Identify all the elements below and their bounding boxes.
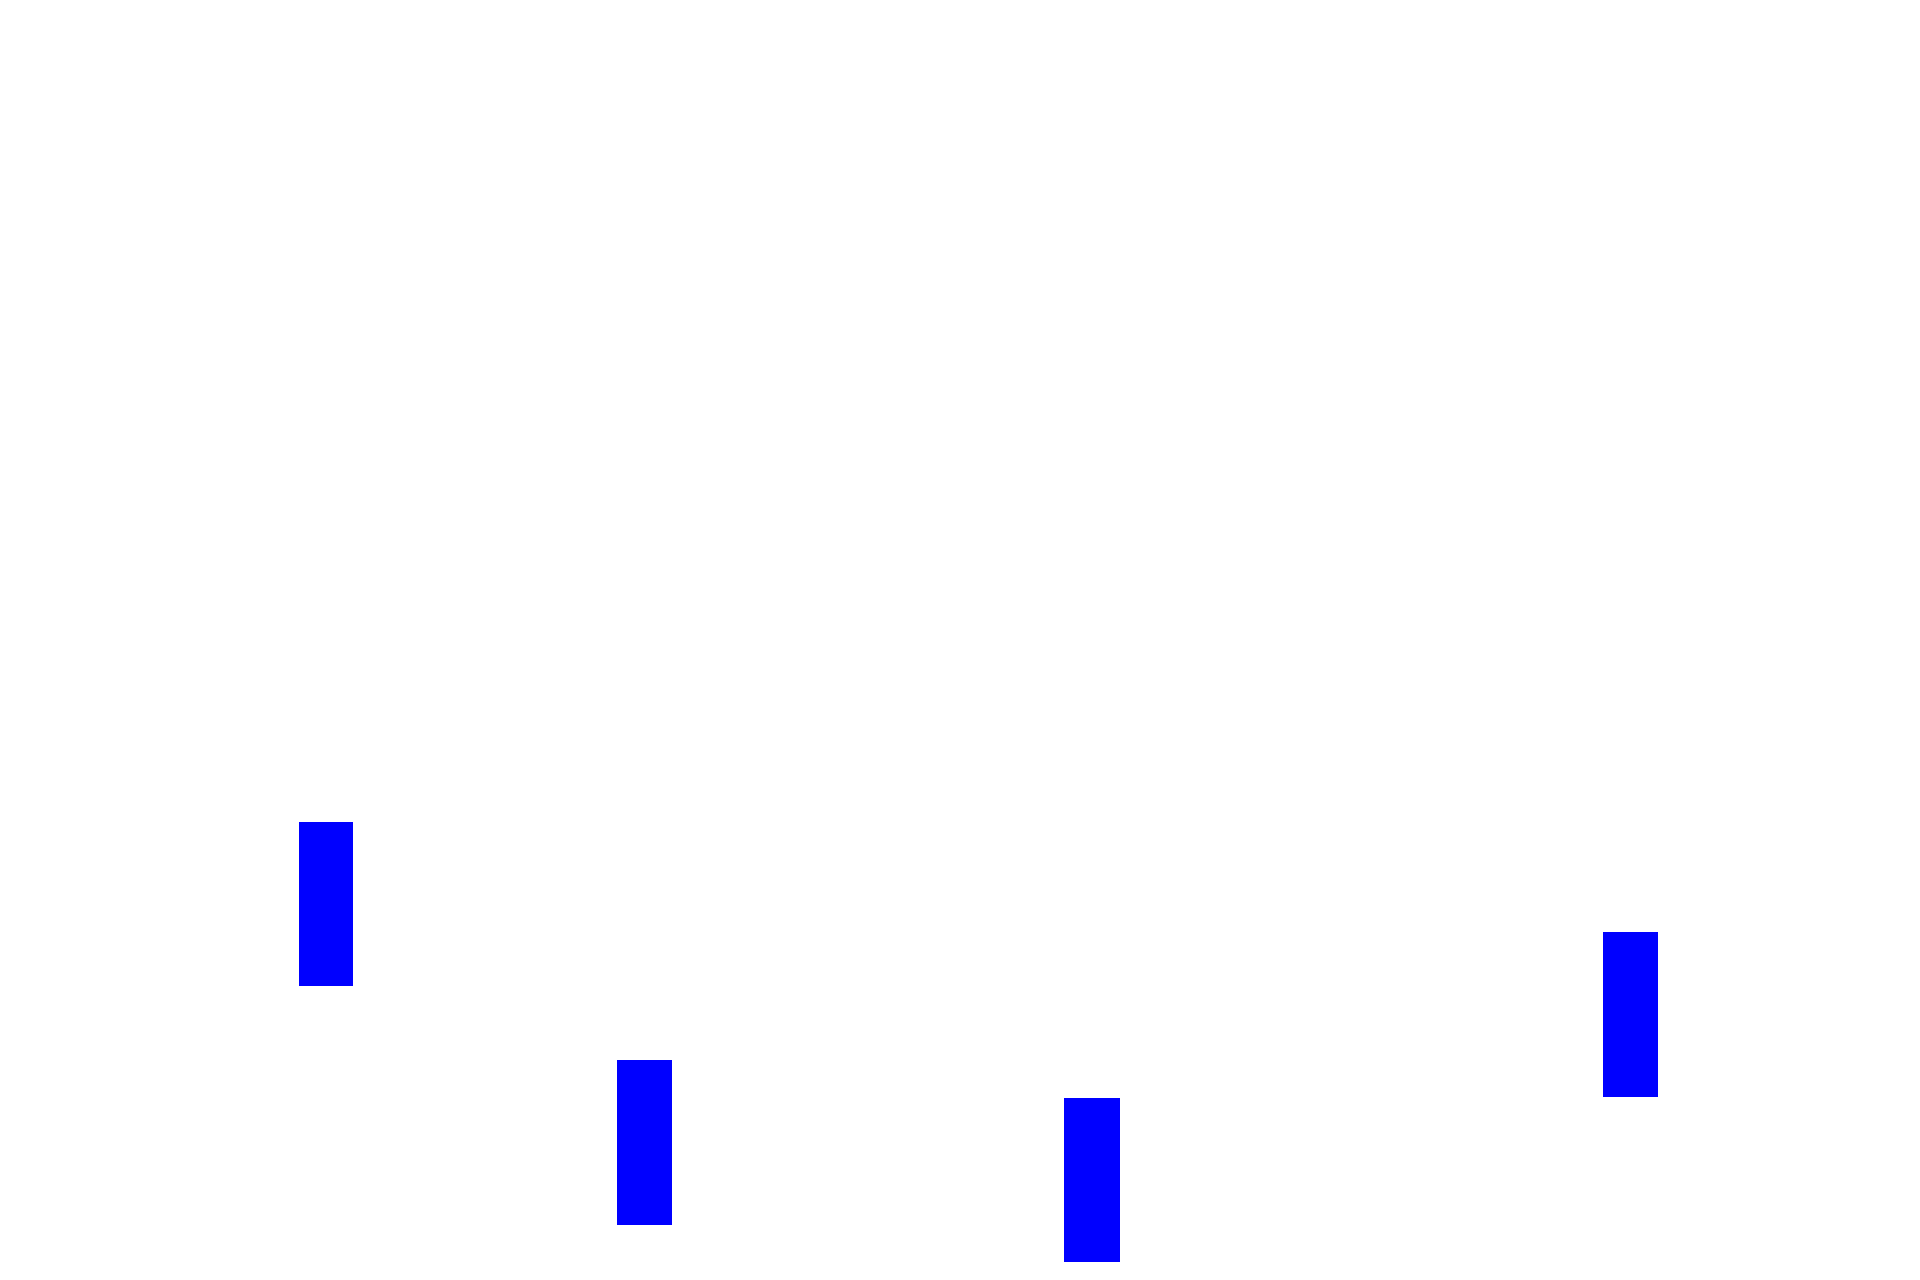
bar 3 (1064, 1098, 1120, 1262)
bar 1 (299, 822, 353, 986)
bar 4 (1603, 932, 1658, 1097)
bar 2 (617, 1060, 672, 1225)
